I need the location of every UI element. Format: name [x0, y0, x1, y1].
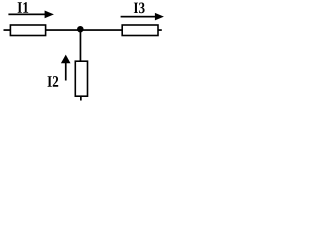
label I1 [18, 2, 29, 13]
wire bottom stub [80, 96, 82, 100]
wire junction down to R3 [80, 30, 82, 62]
label I3 [134, 3, 145, 14]
wire R1 to junction to R2 [46, 29, 122, 31]
current arrow I2 [61, 55, 71, 81]
resistor R1 [10, 25, 45, 36]
label I2 [48, 76, 59, 87]
wire right stub [158, 29, 162, 31]
background [0, 0, 170, 107]
resistor R2 [122, 25, 158, 36]
wire left lead [4, 29, 11, 31]
current arrow I3 [121, 13, 164, 21]
current arrow I1 [8, 11, 54, 19]
node junction [77, 26, 84, 33]
resistor R3 [75, 61, 87, 96]
